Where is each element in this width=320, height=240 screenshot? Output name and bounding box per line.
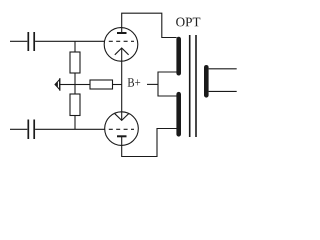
resistor R1 <box>70 52 80 73</box>
wire: B+ bracket to primary center <box>158 72 177 96</box>
tube V2 (lower triode) <box>105 112 139 146</box>
label B+ <box>128 78 141 86</box>
transformer core <box>190 35 196 137</box>
wire: secondary terminal bottom <box>209 90 237 92</box>
transformer OPT primary winding bottom <box>176 94 181 134</box>
capacitor C1 <box>28 32 34 51</box>
wire: wiper arrow to junction <box>60 84 76 86</box>
wire: R3 to cathode bus <box>113 84 122 86</box>
tube V1 (upper triode) <box>104 28 138 62</box>
wire: B+ feed stub <box>147 83 158 85</box>
wire: C2 to grid of V2 <box>35 128 105 130</box>
resistor R3 <box>90 80 113 89</box>
wire: V2 plate to OPT primary bottom <box>122 129 177 157</box>
wire: C1 to grid of V1 <box>35 40 104 42</box>
wire: R1 top lead <box>74 41 76 52</box>
transformer OPT primary winding top <box>176 39 181 73</box>
wire: R1 bottom lead to junction <box>74 73 76 85</box>
wire: R2 bottom lead <box>74 116 76 130</box>
wire: bottom input left <box>10 128 27 130</box>
potentiometer wiper arrow <box>55 78 60 90</box>
wire: V1 plate to OPT primary top <box>122 13 177 37</box>
wire: junction to R3 <box>75 84 90 86</box>
wire: secondary terminal top <box>209 68 237 70</box>
resistor R2 <box>70 94 80 116</box>
label OPT <box>176 18 200 27</box>
wire: cathode bus V1 to V2 <box>121 48 123 120</box>
transformer secondary winding <box>204 67 209 95</box>
wire: R2 top lead <box>74 85 76 95</box>
wire: top input left <box>10 40 27 42</box>
capacitor C2 <box>28 120 34 140</box>
